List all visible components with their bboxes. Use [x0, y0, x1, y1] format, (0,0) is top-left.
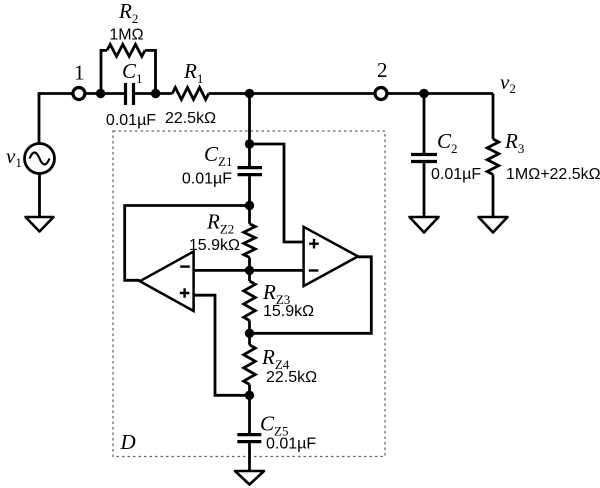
terminal node 2: [375, 88, 387, 100]
svg-text:15.9kΩ: 15.9kΩ: [263, 303, 314, 320]
svg-text:1: 1: [74, 61, 85, 85]
svg-text:0.01µF: 0.01µF: [106, 112, 156, 129]
wire R3 branch upper (v2 corner down): [492, 94, 495, 140]
svg-text:15.9kΩ: 15.9kΩ: [189, 237, 240, 254]
op-amp U2 + pin sign: [309, 239, 319, 249]
wire node G horizontal (left op-amp − to right op-amp −): [194, 269, 304, 272]
wire node E to right op-amp + input: [250, 144, 304, 242]
op-amp U1 (left, pointing left): [140, 252, 194, 312]
svg-text:D: D: [120, 430, 136, 454]
junction dot I (between RZ4 and CZ5): [245, 391, 254, 400]
resistor RZ2: [244, 224, 256, 258]
svg-text:0.01µF: 0.01µF: [431, 166, 481, 183]
junction dot E (tap to right op-amp +): [245, 139, 254, 148]
ground (below R3): [479, 217, 508, 233]
junction dot D (top of C2): [419, 89, 428, 98]
wire R2 right stub: [145, 50, 156, 93]
resistor RZ3: [244, 281, 256, 321]
wire CZ1 bottom plate to RZ2: [248, 176, 251, 224]
ground (bottom, below CZ5): [235, 471, 264, 485]
svg-text:0.01µF: 0.01µF: [182, 171, 232, 188]
op-amp U1 + pin sign: [180, 288, 190, 298]
wire v1 vertical (corner down to source): [38, 92, 41, 143]
junction dot C (top of central column): [245, 89, 254, 98]
svg-text:1MΩ: 1MΩ: [109, 27, 143, 44]
capacitor CZ1: [238, 168, 263, 175]
svg-text:2: 2: [377, 58, 388, 82]
wire v1 source to ground: [38, 174, 41, 220]
wire right op-amp output to node H: [250, 257, 372, 334]
resistor R3: [487, 139, 499, 175]
svg-text:0.01µF: 0.01µF: [266, 436, 316, 453]
wire main horizontal left segment (v1 corner to C1 left plate): [39, 92, 126, 95]
junction dot A (left of C1): [96, 89, 105, 98]
wire CZ5 to ground: [248, 443, 251, 472]
resistor R1: [172, 88, 208, 100]
wire central column: node C to CZ1 top plate: [248, 94, 251, 167]
dashed box D: [113, 131, 385, 457]
capacitor C1: [126, 83, 134, 105]
svg-text:22.5kΩ: 22.5kΩ: [266, 369, 317, 386]
ground (below v1): [26, 217, 54, 232]
junction dot B (right of C1): [151, 89, 160, 98]
wire RZ3 to node H: [248, 321, 251, 345]
ground (below C2): [410, 217, 439, 233]
resistor R2: [107, 44, 145, 56]
junction dot G (between RZ2 and RZ3): [245, 266, 254, 275]
wire R2 left stub: [101, 50, 107, 93]
wire main horizontal right segment (C1 right plate to v2 corner): [134, 92, 494, 95]
op-amp U2 (right, pointing right): [304, 227, 358, 286]
source v1: [25, 144, 55, 174]
wire C2 branch lower: [423, 163, 426, 218]
wire R3 branch lower: [492, 175, 495, 219]
wire RZ2 to node G: [248, 257, 251, 281]
wire RZ4 to CZ5: [248, 384, 251, 433]
resistor RZ4: [244, 345, 256, 385]
wire feedback: node F to left op-amp output: [125, 206, 250, 281]
wire left op-amp + input to node I: [194, 295, 250, 395]
terminal node 1: [73, 88, 85, 100]
svg-text:22.5kΩ: 22.5kΩ: [165, 110, 216, 127]
op-amp U2 − pin sign: [309, 269, 319, 271]
capacitor CZ5: [237, 435, 261, 442]
op-amp U1 − pin sign: [180, 265, 190, 267]
svg-text:1MΩ+22.5kΩ: 1MΩ+22.5kΩ: [506, 166, 600, 183]
capacitor C2: [411, 155, 437, 162]
wire C2 branch upper: [423, 94, 426, 154]
junction dot H (between RZ3 and RZ4): [245, 329, 254, 338]
junction dot F (node between CZ1 and RZ2): [245, 201, 254, 210]
